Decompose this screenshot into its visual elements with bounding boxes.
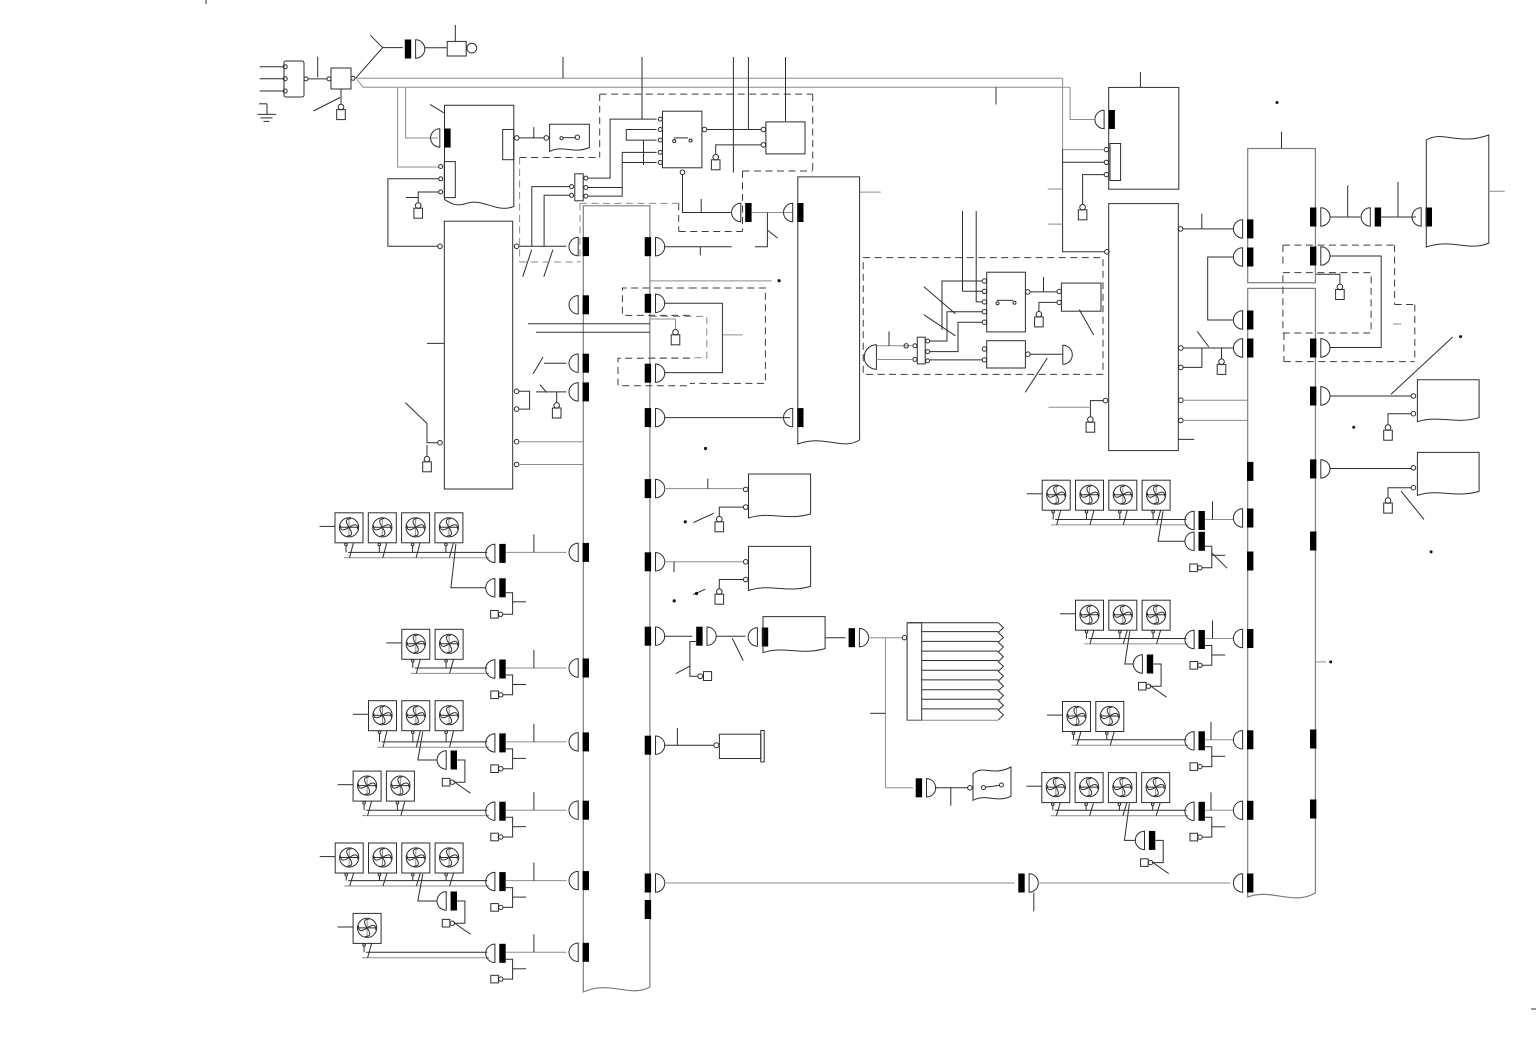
dashed outer cell box xyxy=(690,288,766,383)
dashed group top edge xyxy=(600,93,813,95)
wire cross bus b xyxy=(536,331,650,333)
plug Q-P5 xyxy=(698,674,703,679)
wire fork upper prong xyxy=(370,35,382,47)
relay module W3 xyxy=(763,617,825,653)
wire bus A xyxy=(356,77,1063,79)
wire LK5 drop xyxy=(556,392,558,403)
dashed right group a xyxy=(1283,244,1395,246)
terminal strip TB1 xyxy=(575,174,583,201)
dot node f xyxy=(1352,426,1355,429)
wire TB2 to K3 a xyxy=(930,312,982,341)
wire LK3 xyxy=(426,445,428,456)
wire B6 r1 xyxy=(1183,228,1233,230)
pin TB2 l1 xyxy=(913,344,917,348)
heater HTR1 xyxy=(907,623,922,721)
connector P6 on W3 xyxy=(748,628,757,646)
panel B6 xyxy=(1109,204,1179,451)
wire P7 to heater xyxy=(868,637,902,639)
pin W2-2 xyxy=(743,577,748,582)
pin TB1 r1 xyxy=(584,176,588,180)
connector BUS1-L6 xyxy=(569,659,578,677)
wire FG3 rail A xyxy=(382,741,488,743)
tick FG1 out xyxy=(533,534,535,552)
pin A2 left-2 xyxy=(438,440,443,445)
wire K3 pin1 xyxy=(942,281,982,330)
slash row246 b xyxy=(544,250,553,277)
tick wire stub xyxy=(317,57,319,78)
tick bus B stub xyxy=(995,87,997,104)
wire FG1-F2 leads xyxy=(378,546,380,553)
fan FG8-F2 xyxy=(1109,600,1137,630)
tick FG10 link xyxy=(1212,826,1225,828)
connector FG6-C1 xyxy=(486,944,495,962)
slash FG10 mid xyxy=(1152,862,1169,874)
wire FG5 rail B xyxy=(344,885,489,887)
connector BUS1-R8 xyxy=(656,736,665,754)
connector P1 on A1 xyxy=(431,129,440,147)
terminal tab A1 left xyxy=(444,162,455,198)
plug FG5-Q1 xyxy=(491,904,499,912)
terminal tab B5 xyxy=(1110,144,1121,181)
wire K3 pin2 stub xyxy=(963,290,983,292)
ground xyxy=(259,103,267,105)
wire FG8 rail B xyxy=(1085,643,1189,645)
wire FG10 mid diag xyxy=(1124,804,1135,841)
pin B6 top-left xyxy=(1105,250,1110,255)
wire FG7-F2 leads xyxy=(1086,513,1088,519)
connector P7 xyxy=(859,629,868,647)
junction box J1 xyxy=(331,68,351,89)
dashed group bottom left xyxy=(520,261,580,263)
connector FG10-C3 xyxy=(1135,831,1144,849)
tick FG6 link xyxy=(513,968,526,970)
wire row303 loop xyxy=(664,303,722,372)
wire FG3-F1 leads xyxy=(379,734,381,742)
connector FG7-C2 xyxy=(1185,532,1194,550)
dashed right group b xyxy=(1394,245,1396,304)
pin PS1-3 xyxy=(283,89,287,93)
connector BUS1-R3 xyxy=(656,364,665,382)
switch S1 xyxy=(550,124,590,151)
wire B6 left low xyxy=(1090,401,1103,417)
connector BUS1-L9 xyxy=(569,871,578,889)
wire PS1 input 3 xyxy=(260,90,283,92)
pin K1-5 xyxy=(658,161,662,165)
wire row217 b xyxy=(1381,216,1416,218)
slash B6 r2 xyxy=(1197,331,1209,347)
wire FG10 feed xyxy=(1026,785,1042,787)
connector BUS1-L3 xyxy=(569,354,578,372)
wire DM1 to TB2 a xyxy=(876,345,912,347)
padlock LK1 xyxy=(338,104,344,110)
tick row246 xyxy=(699,247,701,256)
tick node i xyxy=(1315,661,1326,663)
wire drop x748 xyxy=(747,57,749,130)
slash LK8 xyxy=(694,513,714,522)
black bar BUS2-Lb xyxy=(1247,552,1253,571)
pin A1-a xyxy=(439,165,443,169)
fan FG5-F2 xyxy=(369,843,397,873)
connector BUS1-R1 xyxy=(656,238,665,256)
connector BUS1-R9 xyxy=(656,874,665,892)
tick FG8 link xyxy=(1212,654,1225,656)
connector BUS1-R2 xyxy=(656,294,665,312)
pin K1-4 xyxy=(658,150,662,154)
wire FG4 out xyxy=(506,809,567,811)
wire LK6 gray xyxy=(650,319,676,329)
wire FG8-F3 leads xyxy=(1152,633,1154,638)
pin K4-2 xyxy=(1057,300,1061,304)
fan FG1-F2 xyxy=(368,513,396,543)
wire FG10 link xyxy=(1202,817,1212,837)
dashed right inner xyxy=(1283,273,1371,333)
wire FG10 rail A xyxy=(1055,809,1187,811)
wire long row883 xyxy=(664,882,1015,884)
fan FG1-F3 xyxy=(402,513,430,543)
tick FG7 link2 xyxy=(1212,554,1225,556)
tick row303 loop xyxy=(723,334,743,336)
tick row324 stub xyxy=(1393,323,1401,325)
dot node row281 xyxy=(778,279,781,282)
dashed inner cell box xyxy=(650,316,707,357)
wire FG9-F1 leads xyxy=(1073,735,1075,740)
dashed group jog up xyxy=(678,203,680,231)
plug FG5-Q3 xyxy=(442,919,450,927)
wire row561 chain xyxy=(664,561,743,563)
tick FG6 out xyxy=(533,934,535,952)
wire LK7 to K4 xyxy=(1039,302,1057,311)
connector P12 on B7 xyxy=(1412,208,1421,226)
connector BUS1-R6 xyxy=(656,553,665,571)
tick A3 right stub xyxy=(860,191,881,193)
plug FG8-Q1 xyxy=(1190,662,1198,670)
fan FG1-F4 xyxy=(435,513,463,543)
pin K5 right xyxy=(1026,352,1031,357)
pin K5-1 xyxy=(982,347,986,351)
wire TB2 to K3 b xyxy=(930,322,982,351)
wire A1 to S1 xyxy=(519,137,544,139)
tick left b xyxy=(1048,223,1063,225)
wire row256-348 loop xyxy=(1330,256,1381,348)
wire A2 r4 to bus xyxy=(519,441,583,443)
node TB2 wire xyxy=(904,344,908,348)
fan FG8-F3 xyxy=(1142,600,1170,630)
wire row246 chain xyxy=(664,246,731,248)
pin W2-1 xyxy=(743,560,748,565)
wire FG3-F2 leads xyxy=(412,734,414,742)
wire K1 bottom xyxy=(683,175,731,213)
padlock LK3 xyxy=(424,456,430,462)
wire FG4 rail A xyxy=(366,809,487,811)
black bar BUS1-R extra xyxy=(645,900,651,919)
relay K1 xyxy=(663,111,702,168)
fan FG7-F3 xyxy=(1109,480,1137,510)
tick B6 bottom xyxy=(1178,438,1194,440)
tick A2 left stub xyxy=(427,342,444,344)
dashed right group g xyxy=(1283,333,1285,362)
plug FG9-Q1 xyxy=(1190,763,1198,771)
pin B5-2 xyxy=(1104,160,1108,164)
wire W1-2 to LK8 xyxy=(719,507,743,516)
wire FG6 feed xyxy=(338,926,354,928)
fan FG10-F3 xyxy=(1108,773,1136,803)
pin B6 left low xyxy=(1103,398,1108,403)
wire W2-2 to LK9 xyxy=(719,580,743,589)
wire K1 pin5 xyxy=(622,162,656,164)
wire FG1-F1 leads xyxy=(345,546,347,553)
pin B5-1 xyxy=(1104,147,1108,151)
wire drop K3 a xyxy=(962,211,964,291)
wire motor row745 xyxy=(664,744,713,746)
fan FG3-F2 xyxy=(402,701,430,731)
dashed group jog xyxy=(679,231,743,233)
slash long diag xyxy=(1391,337,1453,394)
wire FG8 mid diag xyxy=(1125,631,1133,664)
relay module W1 xyxy=(749,474,811,518)
wire P8 to S2 xyxy=(935,787,968,789)
black bar BUS2-Rc xyxy=(1310,800,1316,819)
pin W1-2 xyxy=(743,505,748,510)
junction drop xyxy=(884,638,886,788)
fan FG4-F2 xyxy=(386,771,414,801)
padlock LK9 xyxy=(717,589,723,595)
tick FG9 out xyxy=(1210,722,1212,740)
wire FG1 out xyxy=(506,551,567,553)
wire row636 chain b xyxy=(716,635,745,637)
wire P2 to P3 xyxy=(752,212,793,214)
dashed cell row373 box xyxy=(618,358,690,385)
dashed right group f xyxy=(1282,245,1284,264)
dot node i xyxy=(1329,660,1332,663)
plug FG2-Q1 xyxy=(491,691,499,699)
wire FG5-F4 leads xyxy=(445,876,447,881)
relay module W9 xyxy=(1417,452,1479,495)
pin B6 r1 xyxy=(1178,227,1183,232)
module K4 xyxy=(1061,283,1101,311)
pin S2 in xyxy=(968,786,973,791)
connector BUS1-L5 xyxy=(569,543,578,561)
wire FG4-F1 leads xyxy=(363,804,365,810)
wire B6 loop xyxy=(1183,348,1202,367)
pin K1-2 xyxy=(658,128,662,132)
pin J1 in xyxy=(327,77,331,81)
wire FG10 rail B xyxy=(1051,815,1189,817)
slash J1 lock xyxy=(314,98,341,112)
wire FG2 rail B xyxy=(411,672,489,674)
contactor panel A3 xyxy=(798,177,860,444)
tick left a xyxy=(1048,188,1063,190)
wire FG1 rail B xyxy=(344,557,489,559)
wire FG5 rail A xyxy=(348,880,487,882)
wire FG3 link xyxy=(503,749,513,769)
wire FG7 link2 xyxy=(1202,546,1212,568)
wire FG4-F2 leads xyxy=(396,804,398,810)
wire W9-2 xyxy=(1388,488,1411,498)
tick FG3 link xyxy=(513,757,526,759)
wire FG1-F4 leads xyxy=(445,546,447,553)
wire FG7 rail A xyxy=(1055,519,1186,521)
slash A2 right xyxy=(533,357,543,374)
wire TB2 to K5 xyxy=(930,359,982,361)
pin K1 right xyxy=(702,127,707,132)
connector BUS1-R5 xyxy=(656,479,665,497)
wire TB1-l1 down xyxy=(532,187,570,247)
slash row246 a xyxy=(523,250,532,277)
wire K1 to K2 xyxy=(707,129,761,131)
relay panel A2 xyxy=(444,221,512,489)
dot node h xyxy=(1430,550,1433,553)
dashed right group e xyxy=(1284,361,1415,363)
pin K2-2 xyxy=(761,143,766,148)
connector BUS2-L5 xyxy=(1233,509,1242,527)
wire CB1 to M1 xyxy=(424,47,446,49)
wire FG2 rail A xyxy=(415,667,487,669)
tick bus A stub xyxy=(562,57,564,78)
dot node b xyxy=(684,520,687,523)
pin TB1 l2 xyxy=(570,193,574,197)
connector P8 xyxy=(927,779,936,797)
fan FG5-F3 xyxy=(402,843,430,873)
connector BUS2-L4 xyxy=(1233,339,1242,357)
wire PS1 input 2 xyxy=(260,78,283,80)
wire FG7-F3 leads xyxy=(1119,513,1121,519)
connector FG4-C1 xyxy=(486,802,495,820)
padlock LK5 xyxy=(554,403,560,409)
plug FG3-Q3 xyxy=(442,778,450,786)
wire M1 stub top xyxy=(454,25,456,41)
plug FG6-Q1 xyxy=(491,975,499,983)
connector BUS1-L10 xyxy=(569,943,578,961)
wire DM1 to TB2 b xyxy=(876,359,912,361)
tick row217 b xyxy=(1397,182,1399,217)
wire FG1 diag xyxy=(451,544,486,588)
connector BUS2-R5 xyxy=(1321,460,1330,478)
dot node a xyxy=(704,447,707,450)
pin K1 bottom xyxy=(680,170,685,175)
pin TB1 r2 xyxy=(584,186,588,190)
wire FG5 mid diag xyxy=(418,874,437,901)
wire row417 chain xyxy=(664,417,790,419)
dashed group right edge xyxy=(812,94,814,171)
tick FG4 out xyxy=(533,792,535,810)
wire LK10 xyxy=(1083,175,1105,205)
dot node e xyxy=(1276,101,1279,104)
fan FG3-F1 xyxy=(369,701,397,731)
wire drop K3 b xyxy=(976,211,982,302)
pin W9-1 xyxy=(1411,466,1416,471)
wire A2 to bus row246 xyxy=(519,245,567,247)
wire FG6 rail A xyxy=(366,951,487,953)
wire K3 to K4 xyxy=(1030,291,1057,293)
connector BUS1-R4 xyxy=(656,408,665,426)
wire drop x733 xyxy=(732,57,734,173)
connector FG5-C3 xyxy=(437,892,446,910)
wire W8-2 xyxy=(1388,414,1411,425)
wire LK11 xyxy=(1221,348,1223,359)
fan FG7-F1 xyxy=(1042,480,1070,510)
wire FG5-F1 leads xyxy=(345,876,347,881)
plug FG8-Q3 xyxy=(1139,682,1147,690)
wire K1 pins2-3 jumper xyxy=(626,130,656,141)
connector FG5-C1 xyxy=(486,872,495,890)
fan FG10-F1 xyxy=(1042,773,1070,803)
slash FG8 mid xyxy=(1150,685,1167,697)
pin PS1-2 xyxy=(283,77,287,81)
pin K1-3 xyxy=(658,138,662,142)
wire FG7 diag xyxy=(1158,511,1185,541)
wire FG10-F3 leads xyxy=(1118,806,1120,811)
connector FG7-C1 xyxy=(1185,511,1194,529)
dashed group upper bottom xyxy=(520,157,600,159)
connector P2 xyxy=(732,203,741,221)
slash FG7 xyxy=(1212,553,1227,568)
fan FG5-F4 xyxy=(435,843,463,873)
wire FG3 feed xyxy=(353,713,369,715)
wire FG1 feed xyxy=(320,525,336,527)
connector BUS2-L7 xyxy=(1233,731,1242,749)
wire FG6 rail B xyxy=(362,957,489,959)
padlock LK4 xyxy=(713,154,719,160)
connector P4 on A3 xyxy=(784,408,793,426)
tick FG8 out xyxy=(1212,621,1214,639)
motor M2 xyxy=(719,734,760,758)
wire FG8-F2 leads xyxy=(1119,633,1121,638)
black bar BUS2-Ra xyxy=(1310,532,1316,551)
pin J1 out xyxy=(351,76,355,80)
pin heater in xyxy=(902,636,906,640)
dashed group left run xyxy=(580,202,679,204)
connector BUS1-L7 xyxy=(569,733,578,751)
wire FG9 feed xyxy=(1047,714,1063,716)
wire BUS2 left loop xyxy=(1208,257,1234,320)
wire loop A2 right xyxy=(519,391,530,409)
tick FG1 link2 xyxy=(513,601,526,603)
slash row636 xyxy=(732,638,743,661)
slash P2 branch xyxy=(768,230,778,238)
wire P8 feed xyxy=(885,787,913,789)
pin A2 right-1 xyxy=(514,244,519,249)
wire TB1-l2 down xyxy=(544,195,569,246)
wire cross bus a xyxy=(528,323,650,325)
dot node d xyxy=(695,592,698,595)
tick row745 xyxy=(676,728,678,745)
wire FG8 feed xyxy=(1060,613,1076,615)
pin K3-1 xyxy=(982,279,986,283)
relay K3 xyxy=(987,272,1026,332)
fan FG9-F2 xyxy=(1096,702,1124,732)
pin B5-3 xyxy=(1104,172,1108,176)
plug FG7-Q2 xyxy=(1190,564,1198,572)
wire node row281 xyxy=(651,280,772,282)
pin A1 out xyxy=(515,136,520,141)
connector FG1-C1 xyxy=(486,544,495,562)
pin K3-2 xyxy=(982,289,986,293)
connector BUS1-L8 xyxy=(569,801,578,819)
fan FG1-F1 xyxy=(335,513,363,543)
wire long row883 b xyxy=(1038,882,1231,884)
pin S1 in xyxy=(544,136,549,141)
connector BUS1-R7 xyxy=(656,627,665,645)
wire B5-2 stub xyxy=(1063,161,1105,163)
wire K1 pin4 xyxy=(588,152,657,196)
dash mark edge xyxy=(1531,1008,1536,1010)
tick TB2 wire xyxy=(888,331,890,345)
wire FG4 rail B xyxy=(362,815,489,817)
pin K3-3 xyxy=(982,300,986,304)
wire FG4 link xyxy=(503,817,513,837)
dashed group upper left xyxy=(599,94,601,157)
slash P5 link xyxy=(676,666,690,674)
